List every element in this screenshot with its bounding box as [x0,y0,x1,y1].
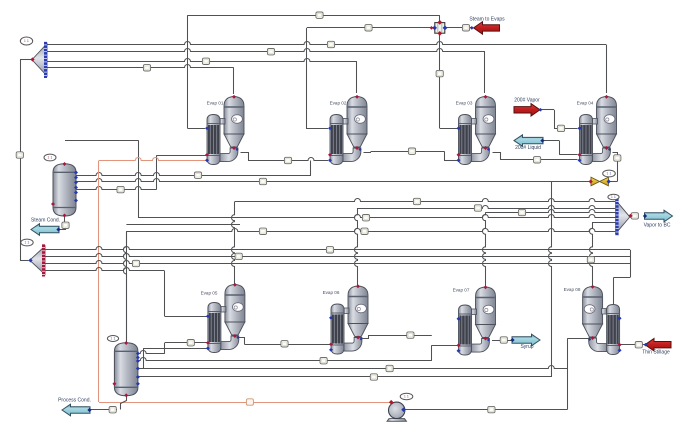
wire Evap08 liquor down [567,338,588,340]
wire condensate line V1-L1 [77,173,312,176]
svg-text:1: 1 [407,395,409,399]
wire pump discharge [405,409,568,411]
wire 200# Vapor to Evap04 HX [541,109,555,111]
connector steam header tag [316,12,323,18]
label valve oval [603,170,616,177]
evaporator U1 Evap 01 [224,97,244,135]
svg-text:Evap 03: Evap 03 [456,101,473,106]
evaporator U5 Evap 05 [225,285,245,323]
connector B2 tag [267,49,274,55]
svg-text:Evap 04: Evap 04 [577,101,594,106]
valve FV1 [591,177,600,186]
connector C2 tag [474,205,481,211]
wire 200# Liquid from Evap04 HX [559,154,577,156]
svg-text:Vapor to BC: Vapor to BC [644,223,671,229]
node V2 ports [124,341,128,345]
svg-text:Steam Cond.: Steam Cond. [31,218,60,224]
wire V2-d bus [138,376,551,378]
vessel V1 steam condensate drum [53,164,76,216]
connector C-E7 tag [518,209,525,215]
connector V1-L1 tag [194,172,201,178]
label V2 oval [107,336,118,342]
arrow Vapor to BC [645,210,673,222]
svg-text:Evap 07: Evap 07 [453,288,470,293]
arrow Syrup [512,334,540,346]
connector B1 tag [327,41,334,47]
svg-text:Evap 08: Evap 08 [564,287,581,292]
connector C1 tag [413,198,420,204]
connector orange tag [246,399,253,405]
wire M2-L4 to Evap05 HX [45,268,165,271]
mixer M3 [616,200,630,234]
wire C-E8 Evap08 vapor to M3 [592,222,616,224]
connector M2-L1 tag [326,247,333,253]
wire Thin Stillage to Evap08 HX [620,344,645,346]
svg-text:1: 1 [24,39,26,43]
wire M2-L1 from Evap08 HX [45,247,630,250]
connector V2-c tag [386,365,393,371]
connector process cond tag [109,407,116,413]
connector C5 tag [259,228,266,234]
connector steam cond tag [62,222,69,228]
svg-text:Evap 01: Evap 01 [207,101,224,106]
connector C3 mid tag [362,215,369,221]
svg-text:Syrup: Syrup [520,344,533,350]
node M1 apex [30,57,34,61]
vessel V2 process condensate drum [114,343,137,396]
connector E2-E3 liquor tag [408,148,415,154]
wire Evap06 liquor to Evap07 [362,336,369,339]
wire V2-c feed bus [138,366,567,369]
svg-text:1: 1 [28,241,30,245]
pump P1 [387,419,407,422]
label M1 oval [20,37,32,45]
connector 200 vapor tag [557,125,564,131]
wire V1 line1 riser [310,161,312,176]
wire orange condensate header [99,158,206,161]
wire V2-a to Evap05 HX [138,351,164,354]
svg-text:1: 1 [114,337,116,341]
connector splitter drop tag [436,70,443,76]
wire V2 top riser [126,231,128,342]
wire vapor bus B1 (Evap04 flash to M1) [47,42,606,45]
node V1 ports [63,162,67,166]
connector E1-E2 liquor tag [284,157,291,163]
wire M2-L2 [45,254,630,257]
svg-text:1: 1 [27,39,29,43]
wire Evap01 liquor to Evap02 [241,153,249,161]
wire M2-L3 [45,261,630,264]
mixer M2 [30,246,45,275]
svg-text:1: 1 [611,195,613,199]
connector V1-L2 tag [259,178,266,184]
connector B3 tag [202,58,209,64]
wire valve drain to bus D [549,182,552,378]
arrow Steam to Evaps [474,22,500,35]
node M2 apex [28,258,32,262]
connector pump discharge tag [488,406,495,412]
connector B4 tag [143,65,150,71]
evaporator U3 Evap 03 [476,97,496,135]
svg-text:1: 1 [25,241,27,245]
wire steam to Evap02 [307,27,434,29]
label M3 oval [608,194,619,200]
wire V1 top vapor to C3 bus [65,140,138,142]
wire Evap07 liquor to Syrup [492,340,512,342]
svg-text:Process Cond.: Process Cond. [58,398,91,404]
splitter S1 [435,23,445,34]
arrow Thin Stillage [645,338,671,351]
wire V1-L3 to Evap01 HX [77,187,157,190]
svg-text:Evap 05: Evap 05 [201,291,218,296]
svg-text:Evap 06: Evap 06 [323,290,340,295]
svg-text:1: 1 [404,395,406,399]
wire M1 outlet down left edge [20,59,31,61]
wire C-E7 Evap07 vapor to M3 [485,210,615,213]
arrow Process Cond [62,404,90,416]
connector M1 outlet tag [16,152,23,158]
evaporator U8 Evap 08 [583,287,603,325]
wire Evap04 liquor to valve [613,153,618,182]
connector E3-E4 liquor tag [534,157,541,163]
wire vapor bus B2 (Evap03 flash to M1) [47,49,485,52]
wire V2 bottom to Process Cond arrow [121,397,127,410]
svg-text:Thin Stillage: Thin Stillage [642,350,670,356]
wire steam header to Evap01 [188,15,440,17]
arrow 200# Vapor [514,104,540,117]
wire C1 Evap05 vapor to M3 [235,199,616,202]
wire vapor bus B4 (Evap01 flash to M1) [47,65,234,68]
wire condensate line V1-L2 to valve [77,179,592,182]
connector M2-L2 tag [235,253,242,259]
svg-text:1: 1 [111,337,113,341]
wire splitter top riser [439,15,441,22]
connector thin stillage tag [635,342,642,348]
connector M2-L3 tag [132,260,139,266]
svg-text:1: 1 [48,156,50,160]
wire C5 V2 vapor to M3 [126,229,615,232]
svg-text:1: 1 [610,172,612,176]
wire C2 Evap06 vapor to M3 [358,206,616,209]
arrow Steam Cond [31,224,59,236]
wire V1 bottom to Steam Cond arrow [64,217,66,223]
wire V2-b to Evap07 HX [138,358,431,361]
connector V2-d tag [370,374,377,380]
evaporator U2 Evap 02 [347,97,367,135]
svg-text:Evap 02: Evap 02 [330,101,347,106]
svg-text:Steam to Evaps: Steam to Evaps [469,17,505,23]
connector V2-b tag [320,358,327,364]
svg-text:1: 1 [51,156,53,160]
connector M3 outlet tag [631,213,638,219]
arrow 200# Liquid [514,135,543,147]
wire C3 bus to M3 [138,215,615,218]
evaporator U4 Evap 04 [597,97,617,135]
label V1 oval [44,154,56,161]
connector V1-L3 tag [117,186,124,192]
connector steam inlet tag [462,25,469,31]
wire vapor bus B3 (Evap02 flash to M1) [47,59,357,62]
wire Evap05 liquor to Evap06 [239,338,245,345]
svg-text:200# Liquid: 200# Liquid [515,145,541,151]
connector E8 riser tag [587,256,594,262]
wire splitter inlet from Steam to Evaps [446,27,471,29]
mixer M1 [32,44,47,77]
svg-text:1: 1 [614,195,616,199]
evaporator U6 Evap 06 [348,286,368,324]
connector syrup tag [500,337,507,343]
label pump oval [400,393,413,399]
node M3 apex [628,214,632,218]
connector E5-E6 liquor tag [281,341,288,347]
svg-text:200# Vapor: 200# Vapor [514,98,540,104]
svg-text:1: 1 [607,172,609,176]
connector steam E2 tag [365,25,372,31]
wire C4 bus stub [126,224,240,226]
connector E4 outlet tag [614,155,621,161]
connector C5 mid tag [361,228,368,234]
wire Evap02 liquor to Evap03 [364,152,371,153]
wire steam to Evap03 [439,34,441,128]
connector E5 feed tag [187,340,194,346]
wire Evap03 liquor to Evap04 [493,153,501,160]
connector E6-E7 liquor tag [407,332,414,338]
label M2 oval [21,239,33,246]
evaporator U7 Evap 07 [476,287,496,325]
